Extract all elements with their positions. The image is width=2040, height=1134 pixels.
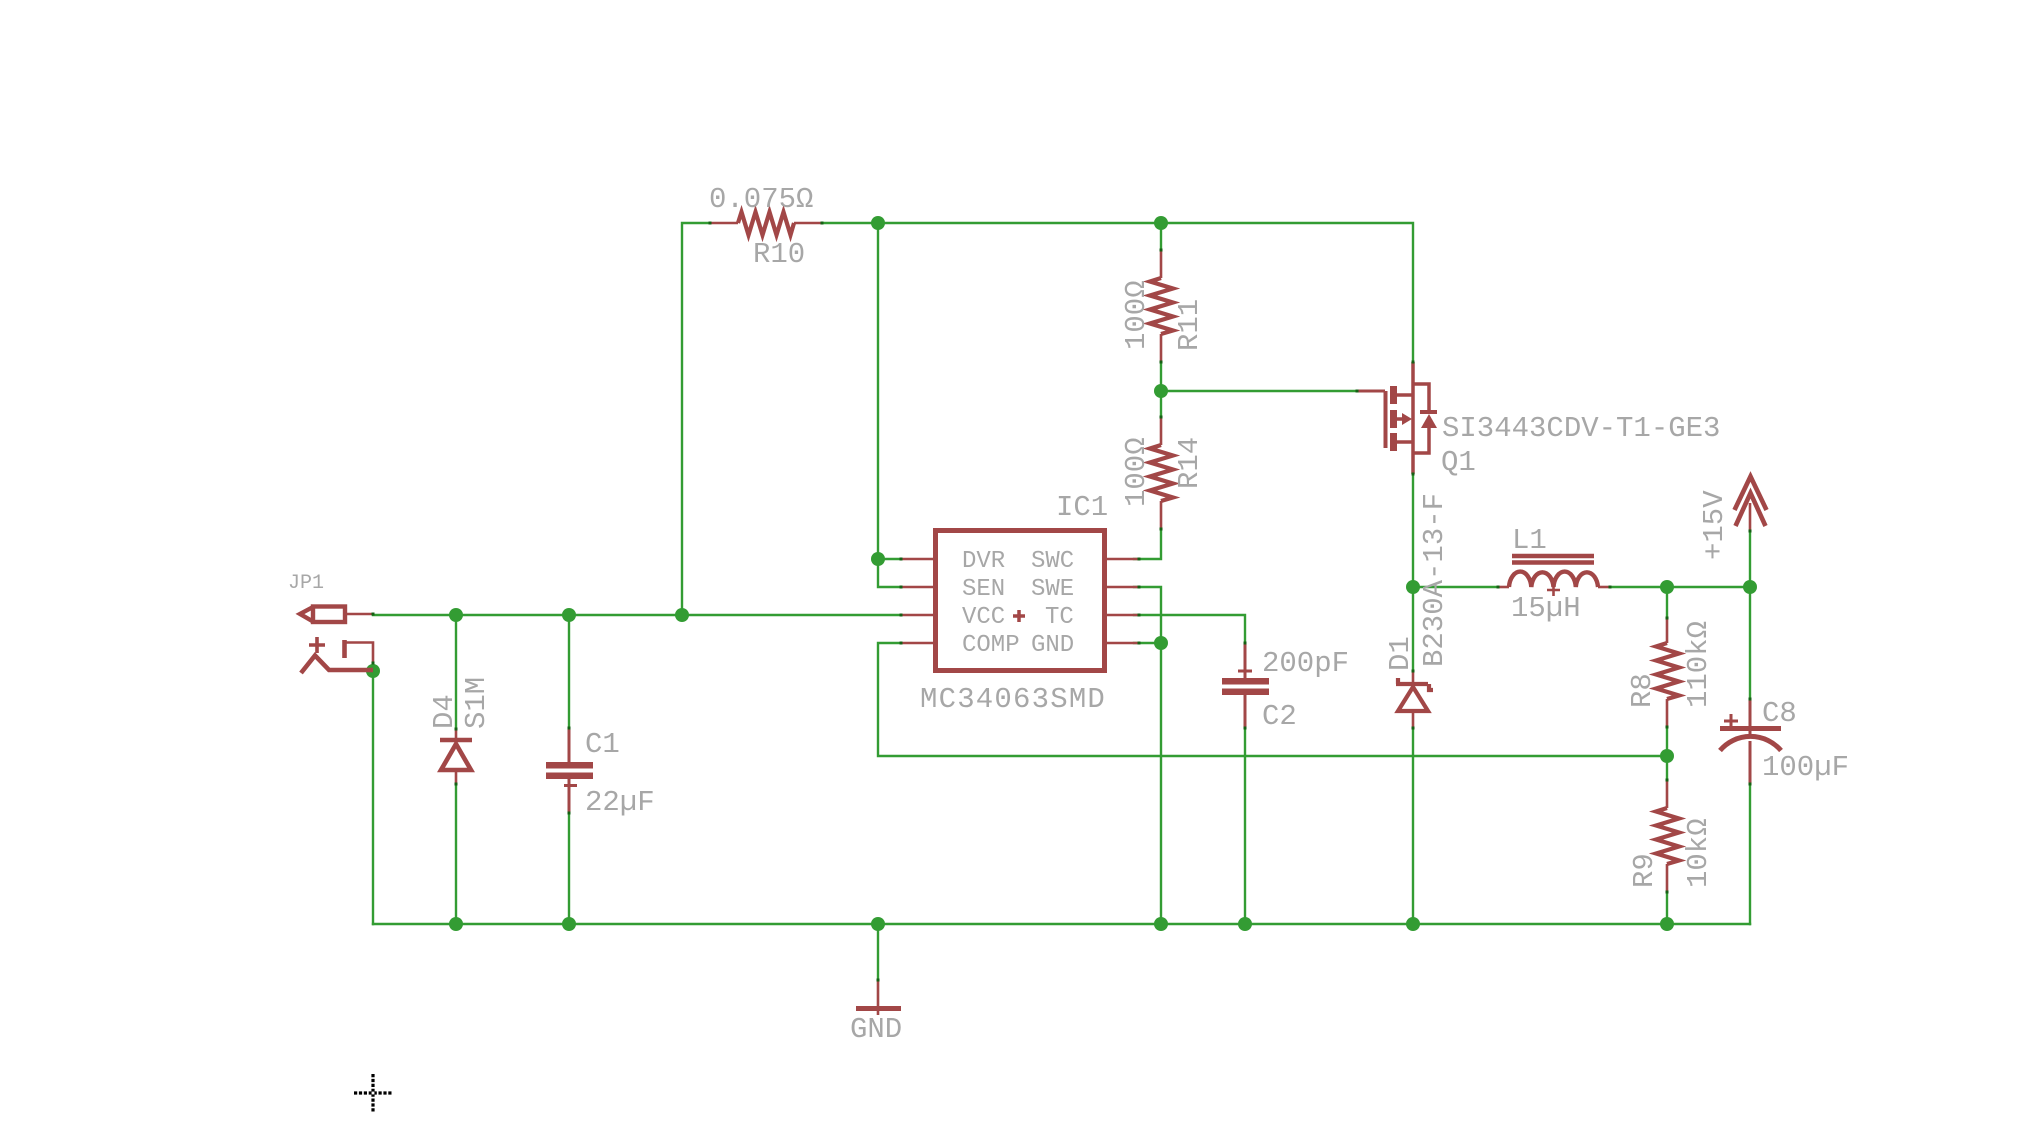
wire C1 bottom to rail [568,813,570,924]
svg-text:110kΩ: 110kΩ [1682,621,1715,708]
wire C1 top lead link [568,615,570,728]
wire VCC rail from JP1 pin1 to VCC pin [373,614,901,616]
node junction JP1 pin2 [366,664,380,678]
wire D1 bottom to rail [1412,728,1414,924]
pin1 tip plug outline [313,607,345,623]
wire DVR stub link [878,558,901,560]
inductor L1 15uH [1498,556,1610,596]
wire L1 rail right to +15V column [1610,586,1750,588]
wire R11 top lead link [1160,223,1162,250]
wire D4 bottom to rail [455,784,457,924]
node junction L1 rail / +15V [1743,580,1757,594]
svg-text:0.075Ω: 0.075Ω [709,183,813,216]
substrate arrow [1397,417,1404,421]
wire R8 top lead link [1666,587,1668,618]
source stub top [1397,393,1413,397]
wires group [373,223,1750,980]
svg-text:C8: C8 [1762,697,1797,730]
diode D4 S1M [440,729,472,784]
resistor R11 100R vertical [1150,250,1173,362]
wire TC to C2 [1134,615,1245,643]
node junction VCC rail / C1 [562,608,576,622]
svg-text:JP1: JP1 [288,572,324,595]
node junction bottom rail / SWE drop [1154,917,1168,931]
wire D1 top lead link [1412,587,1414,671]
svg-text:L1: L1 [1512,524,1547,557]
drain stub bottom [1397,440,1413,444]
polarity tick [564,784,577,787]
wire +15V stem [1749,531,1751,587]
core bar 2 [1512,560,1594,564]
wire C2 bottom to rail [1244,728,1246,924]
plate top straight [1720,726,1781,731]
svg-text:VCC: VCC [962,604,1005,631]
wire bottom ground rail [373,923,1750,925]
svg-text:SWC: SWC [1031,548,1074,575]
wire R11 bottom to gate junction [1160,362,1162,391]
node junction bottom rail / D4 [449,917,463,931]
inner chevron [1736,493,1766,526]
svg-text:IC1: IC1 [1056,491,1108,524]
node junction mid rail / R8-R9 [1660,749,1674,763]
svg-text:R9: R9 [1628,853,1661,888]
svg-text:15µH: 15µH [1511,592,1581,625]
svg-text:100µF: 100µF [1762,751,1849,784]
wire R14 bottom to SWC corner [1134,529,1161,559]
svg-text:GND: GND [850,1013,902,1046]
polarity plus inside IC [1013,610,1025,622]
core bar 1 [1512,554,1594,558]
body diode branch [1413,384,1429,453]
pin VCC stub [901,614,933,617]
jack polarity plus [309,637,325,653]
resistor R9 10k vertical [1656,780,1679,892]
svg-text:22µF: 22µF [585,786,655,819]
cathode bar with schottky wings [1396,678,1433,690]
sleeve lead [345,643,374,664]
wire R9 top lead link [1666,756,1668,780]
wire COMP down and mid rail to R8/R9 junction [878,643,1667,756]
node junction bottom rail / GND stem [871,917,885,931]
node junction bottom rail / R9 [1660,917,1674,931]
origin crosshair marker [354,1074,392,1112]
wire GND symbol stem [877,924,879,980]
connector JP1 power jack [300,607,373,674]
plate top [1222,678,1269,685]
power +15V symbol [1735,477,1767,532]
pin TC stub [1107,614,1139,617]
node junction bottom rail / C1 [562,917,576,931]
wire top rail from R10 right through junctions to Q1 corner [822,223,1413,362]
svg-text:R11: R11 [1173,299,1206,351]
sleeve contact bar [342,640,347,658]
node junction L1 rail / R8 [1660,580,1674,594]
plate bottom curved [1720,736,1781,750]
gate bar [1384,391,1388,448]
wire JP1 pin2 to junction and down left rail [372,663,374,924]
pin SEN stub [901,586,933,589]
wire top rail left segment (R10 left to corner) [682,223,710,615]
node junction bottom rail / C2 [1238,917,1252,931]
wire sense drop x=878 from top rail to SEN corner [878,223,901,587]
spring contact [301,656,373,674]
pin1 lead [345,613,373,616]
svg-text:10kΩ: 10kΩ [1682,818,1715,888]
pin tip contact dots [372,222,1752,982]
polarity plus under coil [1547,583,1560,596]
svg-text:+15V: +15V [1698,490,1731,560]
coil arcs [1509,572,1598,587]
svg-text:TC: TC [1045,604,1074,631]
source/drain vertical [1411,362,1415,474]
channel bar top [1390,386,1397,404]
capacitor C2 200pF [1222,643,1269,728]
anode triangle [1398,687,1428,711]
node junction gate / R11-R14 [1154,384,1168,398]
svg-text:R8: R8 [1626,673,1659,708]
body diode cathode bar [1420,410,1437,414]
wire R9 bottom to rail [1666,892,1668,924]
transistor Q1 SI3443CDV P-MOSFET [1357,362,1437,474]
plate bottom [546,773,593,780]
channel bar bottom [1390,433,1397,451]
wire GND pin stub link [1134,642,1161,644]
svg-text:C1: C1 [585,728,620,761]
svg-text:GND: GND [1031,632,1074,659]
wire SWE to GND junction and down to bottom rail [1134,587,1161,924]
svg-text:COMP: COMP [962,632,1020,659]
anode triangle [441,744,471,770]
pin SWC stub [1107,558,1139,561]
cathode bar [440,738,472,743]
pin DVR stub [901,558,933,561]
wire R14 top lead link [1160,391,1162,417]
polarity tick [1238,670,1252,673]
resistor R8 110k vertical [1656,618,1679,727]
svg-text:B230A-13-F: B230A-13-F [1418,493,1451,667]
svg-text:R10: R10 [753,238,805,271]
diode D1 B230A-13-F schottky [1396,671,1433,728]
wire C8 top lead link [1749,587,1751,699]
ground GND symbol [856,980,901,1015]
svg-text:100Ω: 100Ω [1120,280,1153,350]
svg-text:Q1: Q1 [1441,446,1476,479]
plate top [546,762,593,769]
node junction VCC rail / D4 [449,608,463,622]
svg-text:R14: R14 [1173,437,1206,489]
node junction top rail / sense drop [871,216,885,230]
svg-text:SI3443CDV-T1-GE3: SI3443CDV-T1-GE3 [1442,412,1720,445]
gate lead [1357,390,1385,393]
pin COMP stub [901,642,933,645]
svg-text:C2: C2 [1262,700,1297,733]
body diode triangle [1421,414,1437,428]
wire R8 bottom to mid rail [1666,727,1668,756]
resistor R10 0.075R horizontal [710,212,822,235]
svg-text:D4: D4 [428,694,461,729]
svg-text:MC34063SMD: MC34063SMD [920,683,1106,716]
wire gate line to Q1 [1161,390,1357,392]
node junction SWE / GND pin [1154,636,1168,650]
wire Q1 drain to L1 junction [1412,474,1414,587]
polarity plus [1724,714,1738,728]
pin SWE stub [1107,586,1139,589]
outer chevron [1735,477,1767,511]
svg-text:D1: D1 [1384,636,1417,671]
svg-text:100Ω: 100Ω [1120,437,1153,507]
node junction VCC rail / R10 branch [675,608,689,622]
svg-text:SWE: SWE [1031,576,1074,603]
plate bottom [1222,689,1269,696]
svg-text:S1M: S1M [460,677,493,729]
resistor R14 100R vertical [1150,417,1173,529]
node junction Q1 drain / D1 / L1 [1406,580,1420,594]
wire D4 top lead link [455,615,457,729]
svg-text:DVR: DVR [962,548,1005,575]
node junction top rail / R11 [1154,216,1168,230]
svg-text:200pF: 200pF [1262,647,1349,680]
capacitor C1 22uF [546,728,593,813]
capacitor C8 100uF polarized [1720,699,1781,784]
svg-text:SEN: SEN [962,576,1005,603]
node junction DVR/SEN sense [871,552,885,566]
pin GND stub [1107,642,1139,645]
channel bar middle [1390,410,1397,428]
node junction bottom rail / D1 [1406,917,1420,931]
wire C8 bottom to rail corner [1749,784,1751,924]
wire L1 rail left [1413,586,1498,588]
IC1 MC34063SMD box [901,531,1139,671]
